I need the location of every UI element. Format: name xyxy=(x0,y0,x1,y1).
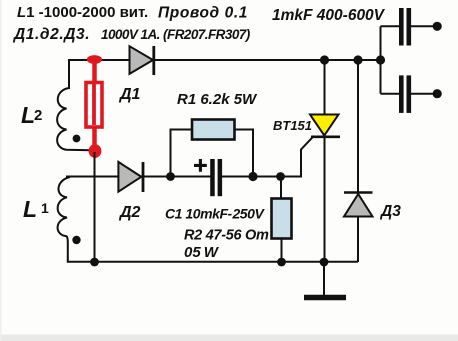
wire D3 bottom xyxy=(357,217,359,263)
svg-text:Д2: Д2 xyxy=(118,204,141,221)
ground xyxy=(304,295,346,301)
diode D1 xyxy=(130,46,154,74)
wire R2 bottom lead xyxy=(281,239,283,263)
node junction top wire caps xyxy=(376,55,385,64)
capacitor C1 left plate xyxy=(210,159,215,196)
diode D3 cathode bar xyxy=(344,191,373,194)
svg-text:1000V 1A. (FR207.FR307): 1000V 1A. (FR207.FR307) xyxy=(101,27,251,42)
svg-text:1mkF 400-600V: 1mkF 400-600V xyxy=(272,7,386,24)
wire ground lead xyxy=(323,262,325,295)
svg-text:L1 -1000-2000 вит.: L1 -1000-2000 вит. xyxy=(17,4,148,21)
wire R1 left lead xyxy=(171,130,193,177)
wire C1 to node xyxy=(222,176,253,178)
inductor L1 xyxy=(58,177,70,262)
svg-text:L: L xyxy=(21,102,35,128)
node dot L1 polarity xyxy=(72,236,80,244)
diode D3 xyxy=(344,194,373,217)
bottom gray band xyxy=(0,335,458,341)
wire gate of thyristor xyxy=(281,137,313,176)
svg-text:Д1.д2.Д3.: Д1.д2.Д3. xyxy=(12,26,90,43)
node red top xyxy=(87,55,102,64)
svg-text:1: 1 xyxy=(41,200,49,216)
node junction top wire thyristor xyxy=(320,55,329,64)
wire from arrester to bottom rail xyxy=(94,152,96,262)
inductor L2 xyxy=(57,88,91,150)
svg-text:2: 2 xyxy=(34,107,42,124)
svg-text:05 W: 05 W xyxy=(184,244,220,261)
wire R1 right lead xyxy=(235,130,254,177)
node junction D2-R1 xyxy=(166,172,175,181)
diode D1 cathode bar xyxy=(152,46,155,75)
wire R2 top lead xyxy=(280,177,282,199)
node junction R1-C1 xyxy=(248,172,257,181)
wire node to gate node xyxy=(253,176,281,178)
wire thyristor cathode xyxy=(324,138,326,262)
capacitor C3 right plate xyxy=(407,75,412,113)
node dot L2 polarity xyxy=(73,135,81,143)
diode D2 xyxy=(118,162,141,192)
left edge strip xyxy=(0,0,2,341)
node junction cathode-ground xyxy=(320,258,329,267)
node red bottom xyxy=(89,144,102,158)
resistor R2 xyxy=(272,199,292,239)
wire top horizontal xyxy=(68,59,381,61)
wire cap C3 left lead xyxy=(381,93,400,95)
svg-text:L: L xyxy=(23,196,37,222)
capacitor C2 left plate xyxy=(399,8,404,46)
wire thyristor anode xyxy=(324,60,326,115)
node terminal C2 xyxy=(433,22,442,31)
wire cap C2 left lead xyxy=(381,25,400,27)
wire caps vertical branch xyxy=(380,26,382,93)
svg-text:BT151: BT151 xyxy=(273,118,312,133)
svg-text:C1 10mkF- 250V: C1 10mkF- 250V xyxy=(165,206,265,222)
svg-text:Провод 0.1: Провод 0.1 xyxy=(158,5,248,22)
capacitor C1 right plate xyxy=(218,159,223,196)
surge arrester F1 inner line xyxy=(92,84,96,125)
thyristor cathode bar xyxy=(311,136,340,139)
wire D3 top xyxy=(357,60,359,192)
thyristor U1 BT151 xyxy=(310,115,339,136)
resistor R1 xyxy=(192,120,235,140)
node junction R2 bottom xyxy=(277,258,286,267)
surge arrester F1 red body line xyxy=(92,60,97,152)
capacitor C3 left plate xyxy=(399,75,404,113)
wire left vertical to L2 xyxy=(68,59,70,89)
node terminal C3 xyxy=(433,89,442,98)
wire bottom rail xyxy=(67,261,358,263)
wire L1 top horizontal xyxy=(66,176,212,178)
node junction top wire D3 xyxy=(353,55,362,64)
node junction gate-R2 xyxy=(276,172,285,181)
svg-text:Д3: Д3 xyxy=(379,203,401,220)
wire cap C2 right lead xyxy=(411,25,437,27)
svg-text:R2 47-56 Om: R2 47-56 Om xyxy=(184,228,269,244)
capacitor C2 right plate xyxy=(407,8,412,46)
wire cap C3 right lead xyxy=(411,93,437,95)
surge arrester F1 red rectangle xyxy=(86,83,102,128)
capacitor C1 plus sign xyxy=(194,159,207,172)
diode D2 cathode bar xyxy=(142,162,145,192)
svg-text:Д1: Д1 xyxy=(118,86,141,103)
svg-text:R1 6.2k 5W: R1 6.2k 5W xyxy=(177,91,258,108)
node junction bottom arrester xyxy=(90,258,99,267)
